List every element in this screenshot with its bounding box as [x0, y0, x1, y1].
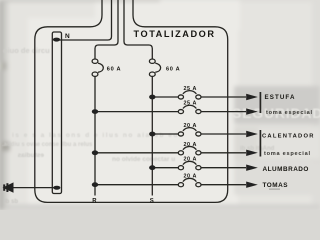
branch row 3 wire from S: [152, 133, 178, 135]
svg-text:S: S: [150, 199, 154, 205]
row 5 wire to arrow: [201, 167, 247, 169]
ghost bleed-through text: [2, 46, 320, 205]
svg-text:20 A: 20 A: [184, 123, 197, 129]
svg-text:ESTUFA: ESTUFA: [265, 94, 296, 101]
branch breaker 25A row 1: [178, 95, 183, 99]
row 4 wire to arrow: [201, 152, 247, 154]
junction R row6: [92, 182, 98, 187]
branch row 4 wire from R: [95, 152, 179, 154]
arrow row 1: [246, 94, 258, 100]
arrow row 4: [246, 150, 258, 156]
incoming neutral feeder wire: [57, 0, 112, 40]
arrow row 2: [246, 108, 258, 114]
main breaker 60A pole 2 terminals: [149, 59, 155, 63]
junction R row2: [92, 109, 98, 114]
branch breaker 20A row 3: [178, 132, 183, 136]
neutral out wire to left arrow: [13, 187, 54, 189]
svg-text:no olvide conectar u: no olvide conectar u: [112, 156, 175, 163]
row 6 wire to arrow: [201, 184, 247, 186]
svg-text:N: N: [65, 33, 70, 40]
svg-text:R: R: [92, 199, 97, 205]
junction R row4: [92, 150, 98, 155]
branch row 2 wire from R: [95, 111, 179, 113]
svg-text:estudias: estudias: [17, 152, 44, 159]
svg-text:20 A: 20 A: [184, 157, 197, 163]
branch breaker 20A row 6: [178, 183, 183, 187]
svg-text:25 A: 25 A: [184, 101, 197, 107]
svg-text:60 A: 60 A: [107, 66, 121, 72]
branch row 5 wire from S: [152, 167, 178, 169]
main schematic strokes: [13, 0, 260, 202]
main breaker 60A pole 2 arc: [155, 63, 160, 72]
arrow row 6: [246, 182, 258, 188]
bus S vertical: [151, 76, 153, 195]
arrow row 3: [246, 131, 258, 137]
branch breaker 20A row 4: [178, 151, 183, 155]
branch row 6 wire from R: [95, 184, 179, 186]
neutral bus bar N: [52, 32, 61, 194]
svg-text:20 A: 20 A: [184, 174, 197, 180]
branch breaker 20A row 5: [178, 166, 183, 170]
svg-text:oiuo de circu: oiuo de circu: [3, 46, 50, 55]
row 2 wire to arrow: [201, 111, 247, 113]
incoming phase R feeder wire: [95, 0, 118, 59]
svg-text:25 A: 25 A: [184, 86, 197, 92]
bracket line group CALENTADOR: [259, 130, 261, 157]
left exit arrow: [3, 182, 14, 192]
main breaker 60A pole 1 arc: [98, 63, 103, 72]
svg-text:CALENTADOR: CALENTADOR: [262, 134, 315, 140]
bracket line group ESTUFA: [259, 92, 261, 113]
row 1 wire to arrow: [201, 96, 247, 98]
main breaker 60A pole 1 terminals: [92, 59, 98, 63]
underline mark below TOMAS: [269, 189, 280, 190]
bus R vertical: [94, 76, 96, 195]
svg-text:.addiu s ovae conse ilbu: .addiu s ovae conse ilbu a relus: [2, 142, 93, 148]
svg-text:TOTALIZADOR: TOTALIZADOR: [134, 29, 216, 39]
svg-text:60 A: 60 A: [166, 66, 180, 72]
neutral bar bottom terminal: [53, 186, 60, 190]
panel enclosure outline: [35, 0, 228, 202]
svg-text:ib sb: ib sb: [4, 199, 18, 205]
junction S row3: [149, 132, 155, 137]
svg-text:20 A: 20 A: [184, 142, 197, 148]
incoming phase S feeder wire: [124, 0, 152, 59]
svg-text:TOMAS: TOMAS: [263, 182, 289, 189]
neutral bar top terminal: [53, 38, 60, 42]
arrow row 5: [246, 165, 258, 171]
svg-text:toma especial: toma especial: [266, 110, 313, 116]
svg-text:ALUMBRADO: ALUMBRADO: [263, 166, 309, 173]
svg-text:toma especial: toma especial: [264, 151, 311, 157]
row 3 wire to arrow: [201, 133, 247, 135]
junction S row1: [149, 95, 155, 100]
branch breaker 25A row 2: [178, 110, 183, 114]
branch row 1 wire from S: [152, 96, 178, 98]
junction S row5: [149, 165, 155, 170]
